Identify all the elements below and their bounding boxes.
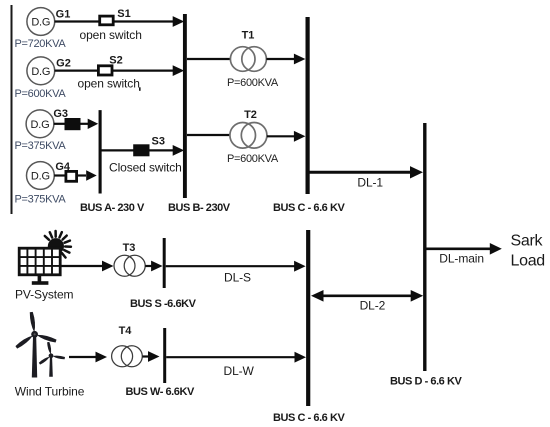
transformer T3 (114, 255, 145, 276)
bus BUS B-230V (183, 14, 187, 198)
svg-text:PV-System: PV-System (15, 288, 74, 302)
wire G3 to BUS A (54, 119, 98, 129)
svg-text:BUS D - 6.6 KV: BUS D - 6.6 KV (390, 375, 462, 387)
switch S2 (open) (98, 66, 112, 75)
bus BUS C upper (306, 17, 310, 194)
wire G1 to BUS B (55, 16, 185, 27)
wire BUS B to T2 (187, 134, 231, 136)
svg-text:T2: T2 (244, 109, 257, 121)
generator G4 (27, 162, 55, 190)
svg-text:S2: S2 (109, 55, 122, 67)
wire Wind to T4 (69, 352, 107, 363)
svg-text:Wind Turbine: Wind Turbine (15, 384, 85, 398)
wire G2 to BUS B (55, 65, 185, 76)
svg-text:Closed switch: Closed switch (109, 160, 182, 174)
svg-text:P=720KVA: P=720KVA (15, 38, 67, 50)
svg-text:D.G: D.G (31, 17, 50, 29)
svg-text:D.G: D.G (31, 171, 50, 183)
svg-text:P=600KVA: P=600KVA (15, 88, 67, 100)
svg-text:BUS W- 6.6KV: BUS W- 6.6KV (126, 386, 195, 398)
wire T3 to BUS S (145, 261, 162, 272)
wire DL-S BUS S to BUS C (166, 261, 306, 272)
svg-text:D.G: D.G (31, 66, 50, 78)
svg-text:open switch: open switch (78, 76, 140, 90)
generator G1 (27, 8, 55, 36)
svg-text:P=375KVA: P=375KVA (15, 140, 67, 152)
switch S1 (open) (100, 16, 114, 25)
svg-text:BUS C - 6.6 KV: BUS C - 6.6 KV (273, 412, 345, 424)
svg-text:DL-2: DL-2 (360, 299, 386, 313)
generator G2 (27, 57, 55, 85)
wire PV to T3 (61, 261, 114, 272)
svg-text:P=375KVA: P=375KVA (15, 193, 67, 205)
svg-text:S1: S1 (117, 8, 130, 20)
bus BUS D (423, 123, 426, 371)
svg-text:open switch: open switch (80, 28, 142, 42)
wire BUS B to T1 (187, 58, 231, 60)
svg-text:G2: G2 (56, 57, 71, 69)
Wind Turbine icon (15, 312, 65, 378)
svg-text:BUS C - 6.6 KV: BUS C - 6.6 KV (273, 202, 345, 214)
wire T4 to BUS W (143, 351, 160, 362)
PV-System icon (19, 231, 71, 285)
svg-text:G1: G1 (56, 8, 71, 20)
svg-text:BUS A- 230 V: BUS A- 230 V (80, 202, 145, 214)
svg-text:D.G: D.G (31, 119, 50, 131)
svg-text:P=600KVA: P=600KVA (227, 77, 279, 89)
switch G3 breaker (closed, filled) (65, 118, 81, 130)
switch S3 (closed, filled) (133, 144, 149, 156)
wire DL-1 BUS C to BUS D (308, 166, 423, 178)
svg-text:BUS B- 230V: BUS B- 230V (168, 202, 231, 214)
transformer T4 (112, 346, 143, 367)
wire BUS A to BUS B via S3 (100, 145, 184, 156)
svg-text:DL-main: DL-main (439, 252, 484, 266)
wire T2 to BUS C (267, 131, 305, 142)
svg-text:DL-1: DL-1 (357, 175, 383, 189)
svg-text:P=600KVA: P=600KVA (227, 153, 279, 165)
wire T1 to BUS C (266, 54, 305, 65)
transformer T1 (230, 47, 266, 72)
bus BUS A-230V (99, 110, 102, 193)
svg-text:T1: T1 (242, 30, 255, 42)
svg-text:Sark: Sark (511, 232, 544, 249)
svg-text:BUS S -6.6KV: BUS S -6.6KV (130, 298, 197, 310)
label Sark Load (511, 232, 545, 269)
svg-text:T3: T3 (123, 242, 136, 254)
transformer T2 (230, 123, 267, 149)
generator G3 (26, 110, 54, 138)
bus BUS C lower (306, 230, 310, 406)
svg-text:Load: Load (511, 252, 545, 269)
bus BUS W (163, 328, 166, 383)
bus BUS S (163, 238, 166, 288)
wire DL-main to Sark Load (427, 243, 502, 255)
wire DL-2 double arrow BUS C to BUS D (311, 290, 423, 302)
svg-text:DL-W: DL-W (224, 364, 255, 378)
svg-text:DL-S: DL-S (224, 271, 251, 285)
svg-text:S3: S3 (152, 136, 165, 148)
svg-text:T4: T4 (119, 325, 133, 337)
switch G4 breaker (open) (66, 171, 77, 181)
label open switch (S2) (78, 76, 140, 90)
wire DL-W BUS W to BUS C (166, 352, 306, 363)
wire G4 to BUS A (54, 170, 96, 180)
